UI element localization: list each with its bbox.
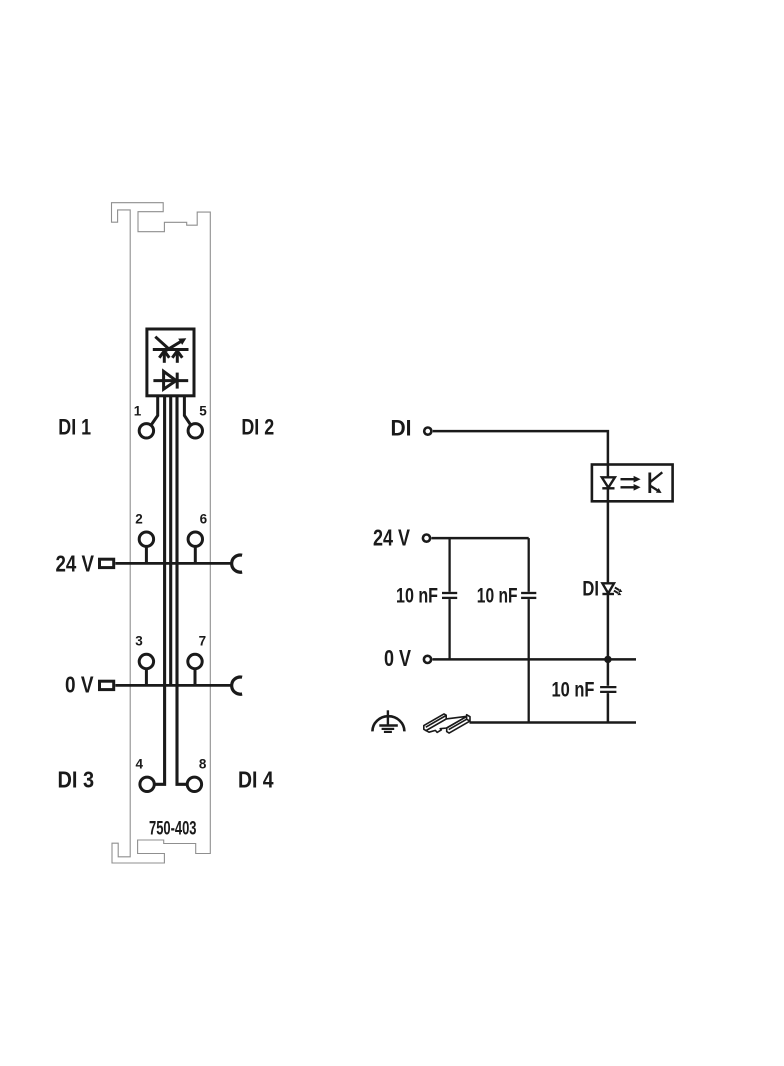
terminal 5 <box>188 424 202 438</box>
svg-text:3: 3 <box>135 634 143 649</box>
diode D1 (in box) <box>153 371 188 389</box>
diagonal arrow (top symbol) <box>166 338 186 350</box>
wire w5 (box to terminal 5) <box>184 396 190 425</box>
wire 0V horizontal <box>433 658 637 661</box>
terminal 7 <box>188 654 202 685</box>
optocoupler light arrow lower <box>621 484 641 491</box>
svg-text:DI 2: DI 2 <box>241 415 274 440</box>
wire LED to 0V junction <box>607 594 610 659</box>
module outline 750-403 housing <box>112 203 211 863</box>
wire w4 (box to terminal 8) <box>177 396 186 785</box>
wire earth bottom <box>470 721 637 724</box>
wire w2 (box to terminal 4) <box>155 396 164 785</box>
capacitor C2 <box>521 538 536 722</box>
0V plug symbol <box>100 681 114 689</box>
terminal 4 <box>140 777 154 791</box>
node 0V terminal circle <box>424 656 431 663</box>
terminal 3 <box>139 654 153 685</box>
up arrow left (top symbol) <box>159 351 169 363</box>
svg-text:0 V: 0 V <box>384 645 412 671</box>
svg-text:5: 5 <box>199 403 207 418</box>
status indicator box U1 <box>147 329 194 396</box>
0V feed line <box>115 684 231 687</box>
LED emission arrow 1 <box>615 588 622 593</box>
up arrow right (top symbol) <box>172 351 182 363</box>
24V socket arc <box>232 555 242 572</box>
terminal 6 <box>188 532 202 563</box>
svg-text:24 V: 24 V <box>56 550 95 576</box>
phototransistor Q1 <box>650 472 663 493</box>
24V plug symbol <box>100 559 114 567</box>
optocoupler LED cathode bar <box>602 487 614 489</box>
svg-text:4: 4 <box>136 756 144 771</box>
svg-text:0 V: 0 V <box>65 672 94 698</box>
suppressor bar (top symbol horizontal line) <box>153 348 189 351</box>
svg-text:8: 8 <box>199 756 207 771</box>
node 24V terminal circle <box>423 535 430 542</box>
wire box to LED <box>607 501 610 583</box>
svg-text:DI: DI <box>582 576 599 600</box>
DIN rail symbol <box>424 714 470 733</box>
wire w3 (box to 0V rail) <box>169 396 172 686</box>
terminal 8 <box>187 777 201 791</box>
optocoupler light arrow upper <box>621 476 641 483</box>
diagonal line (top symbol) <box>155 337 169 350</box>
svg-text:6: 6 <box>200 511 208 526</box>
optocoupler LED triangle <box>602 477 615 487</box>
svg-text:750-403: 750-403 <box>149 817 197 839</box>
svg-text:10 nF: 10 nF <box>477 584 518 607</box>
svg-text:DI 4: DI 4 <box>238 766 274 792</box>
wire w1 (box to terminal 1) <box>151 396 157 425</box>
svg-text:7: 7 <box>199 634 207 649</box>
svg-text:2: 2 <box>135 511 143 526</box>
LED DI indicator <box>602 583 614 594</box>
svg-text:10 nF: 10 nF <box>552 679 595 702</box>
svg-text:DI 3: DI 3 <box>58 766 95 792</box>
24V feed line <box>115 562 231 565</box>
junction dot 0V/LED <box>604 656 611 663</box>
svg-text:DI: DI <box>391 415 412 440</box>
terminal 2 <box>139 532 153 563</box>
ground symbol <box>372 710 404 732</box>
terminal 1 <box>139 424 153 438</box>
LED emission arrow 2 <box>614 591 621 596</box>
capacitor C1 <box>442 538 457 659</box>
optocoupler LED wire in <box>607 465 610 478</box>
0V socket arc <box>232 677 242 694</box>
svg-text:1: 1 <box>134 403 142 418</box>
wire DI horizontal <box>433 431 608 464</box>
capacitor C3 <box>600 659 616 722</box>
optocoupler LED wire out <box>607 488 610 501</box>
svg-text:DI 1: DI 1 <box>58 415 91 440</box>
svg-text:24 V: 24 V <box>373 524 410 550</box>
optocoupler U2 box <box>592 465 673 502</box>
svg-text:10 nF: 10 nF <box>396 584 438 607</box>
node DI terminal circle <box>424 428 431 435</box>
wire 24V horizontal <box>432 537 529 540</box>
